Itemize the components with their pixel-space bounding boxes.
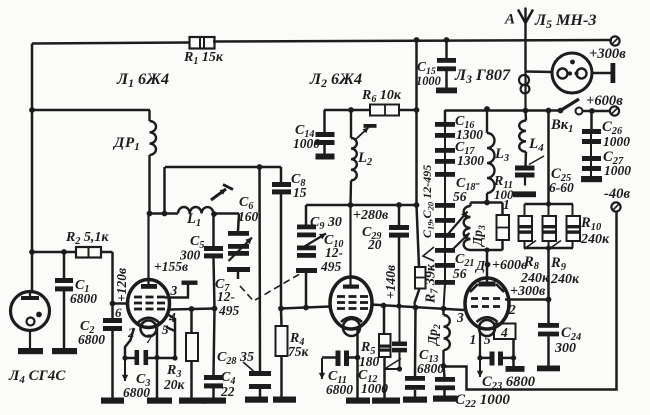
svg-text:1000: 1000 — [604, 163, 631, 178]
node R6 left — [348, 107, 354, 113]
wire +280в rail — [306, 204, 417, 207]
ground C15 — [436, 88, 457, 94]
svg-text:2: 2 — [508, 302, 516, 317]
wire suppressor top rail — [471, 201, 503, 204]
wire +600в rail — [445, 109, 561, 112]
svg-text:1000: 1000 — [416, 74, 441, 88]
cathode Л1 — [138, 318, 159, 323]
svg-text:R1 15к: R1 15к — [183, 50, 224, 67]
anode Л2 lead — [349, 205, 351, 285]
node C29 tap — [396, 202, 402, 208]
ground Л2 cathode — [346, 398, 370, 404]
resistor R9 — [548, 204, 550, 216]
capacitor C1 — [63, 252, 66, 278]
svg-text:7: 7 — [146, 331, 153, 346]
svg-text:1: 1 — [470, 332, 477, 347]
svg-text:А: А — [504, 12, 515, 28]
svg-text:+140в: +140в — [383, 265, 398, 299]
capacitor C14 — [323, 110, 326, 132]
svg-text:Л2 6Ж4: Л2 6Ж4 — [309, 70, 362, 90]
tube Л4 СГ4С — [11, 292, 50, 331]
wire R to +300в — [547, 248, 550, 300]
resistor R2 — [76, 247, 101, 258]
capacitor C11 — [349, 356, 358, 359]
node anode Л2 — [348, 202, 354, 208]
wire anode node up — [163, 167, 166, 214]
svg-text:С9 30: С9 30 — [310, 215, 342, 232]
svg-text:Л3 Г807: Л3 Г807 — [454, 66, 511, 86]
wire R7 column — [417, 205, 420, 267]
node R feed — [546, 201, 551, 206]
lamp terminal bar — [592, 72, 611, 75]
svg-text:Л5 МН-3: Л5 МН-3 — [534, 11, 596, 31]
cathode Л2 — [341, 317, 362, 322]
svg-text:R2 5,1к: R2 5,1к — [65, 230, 109, 247]
svg-text:6: 6 — [115, 305, 122, 320]
wire pin5 stub — [166, 327, 175, 331]
lamp Л5 — [526, 70, 553, 73]
capacitor C5 — [212, 214, 215, 247]
svg-text:240к: 240к — [580, 232, 610, 247]
tuning arrow C19 — [449, 212, 468, 234]
wire pin3 — [165, 296, 189, 299]
svg-text:6-60: 6-60 — [549, 180, 574, 195]
svg-text:1000: 1000 — [361, 381, 388, 396]
svg-text:75к: 75к — [288, 344, 310, 359]
anode Л1 — [141, 284, 157, 289]
wire R bottom rail — [525, 247, 574, 250]
node C3 left — [122, 355, 127, 360]
capacitor C21 — [435, 263, 455, 268]
wire x416 column — [415, 40, 418, 205]
anode Л3 — [479, 282, 496, 287]
node C13 tap — [413, 305, 419, 311]
resistor R1 — [190, 37, 215, 49]
node C1 tap — [61, 249, 67, 255]
wire grid Л2 — [281, 307, 330, 309]
svg-text:160: 160 — [238, 209, 259, 224]
svg-text:15: 15 — [293, 185, 307, 200]
resistor R8 — [524, 204, 526, 216]
wire pins15 Л3 — [478, 325, 480, 358]
svg-text:+280в: +280в — [353, 208, 389, 223]
ground C28 — [245, 397, 268, 403]
svg-text:12-: 12- — [217, 289, 236, 304]
capacitor C16 — [444, 110, 447, 122]
node cathode C3 — [154, 355, 159, 360]
capacitor C27 — [582, 156, 601, 161]
capacitor C12 — [399, 307, 401, 342]
capacitor C20 — [435, 233, 455, 238]
svg-text:1000: 1000 — [293, 136, 320, 151]
wire pin4 row — [170, 309, 215, 310]
tuning arrow C20 — [450, 233, 470, 252]
capacitor C8 — [280, 167, 283, 182]
pointer R9 — [549, 241, 561, 250]
wire left vertical — [31, 44, 34, 293]
wire Л2 output — [371, 305, 464, 311]
node C11 tap — [355, 355, 361, 361]
svg-text:495: 495 — [218, 303, 240, 318]
capacitor C2 — [111, 304, 114, 319]
svg-text:1000: 1000 — [603, 134, 630, 149]
ground C13 — [403, 397, 427, 403]
capacitor C9 — [305, 205, 308, 226]
tuning arrow L2 — [356, 128, 369, 140]
wire to ДР1 — [32, 109, 150, 112]
capacitor C18 — [435, 172, 455, 177]
node C24 tap — [546, 297, 552, 303]
inductor L3 — [486, 111, 488, 134]
ground C25 — [513, 191, 536, 197]
grid dashes Л2 — [337, 295, 345, 298]
svg-text:R6 10к: R6 10к — [361, 88, 402, 105]
tube Л3 — [465, 278, 509, 329]
node suppressor top — [484, 200, 490, 206]
capacitor C28 — [258, 167, 261, 371]
antenna — [518, 10, 533, 24]
node C26 tap — [589, 108, 595, 114]
ground C22 — [433, 396, 457, 402]
capacitor C23 — [480, 357, 490, 360]
ground C14 — [316, 154, 335, 160]
capacitor C15 — [445, 40, 448, 58]
svg-text:20: 20 — [367, 237, 382, 252]
svg-text:+300в: +300в — [510, 284, 546, 299]
ground C27 — [581, 176, 602, 182]
tuning arrow C10 — [302, 234, 326, 249]
svg-text:С22 1000: С22 1000 — [455, 392, 510, 410]
inductor L2 — [350, 110, 352, 138]
resistor R4 — [280, 309, 283, 327]
wire pin7 — [156, 327, 159, 357]
svg-text:20к: 20к — [163, 377, 186, 392]
wire C14 row — [324, 109, 351, 112]
wire grid Л1 — [113, 302, 128, 305]
capacitor C29 — [398, 205, 401, 225]
ground Л4 — [18, 348, 43, 354]
capacitor C22 — [444, 366, 445, 377]
resistor R7 — [415, 267, 426, 289]
bracket C19 C20 — [423, 247, 434, 261]
svg-text:Д: Д — [474, 258, 486, 273]
svg-text:Л4 СГ4С: Л4 СГ4С — [8, 368, 66, 386]
node anode line — [523, 108, 529, 114]
svg-text:6800: 6800 — [417, 361, 444, 376]
wire top bus — [32, 43, 190, 44]
ground cathode — [147, 398, 172, 404]
svg-text:4: 4 — [500, 325, 508, 340]
wire R top rail — [525, 203, 574, 206]
svg-text:300: 300 — [554, 341, 576, 356]
capacitor C25 — [515, 166, 535, 171]
terminal +600в — [610, 106, 619, 115]
svg-text:56: 56 — [453, 189, 467, 204]
choke ДР1 — [148, 110, 150, 121]
choke Др2 — [442, 309, 444, 316]
resistor R6 — [351, 109, 370, 112]
ground R4 — [273, 397, 296, 403]
capacitor C26 — [590, 111, 593, 129]
svg-text:1300: 1300 — [457, 153, 484, 168]
chassis arrow C11 — [321, 358, 323, 379]
wire bias bottom — [444, 212, 617, 390]
chassis arrow C23 — [479, 359, 481, 377]
resistor R3 — [190, 309, 193, 333]
wire suppressor bottom rail — [471, 249, 503, 252]
switch Вк1 — [558, 108, 564, 114]
node R5 tap — [381, 303, 387, 309]
svg-text:12-: 12- — [325, 245, 344, 260]
svg-text:3: 3 — [456, 310, 464, 325]
svg-text:180: 180 — [359, 354, 380, 369]
grid dashes Л3 — [471, 297, 478, 300]
node rail right — [414, 202, 420, 208]
svg-text:240к: 240к — [550, 272, 580, 287]
choke ДР3 — [469, 203, 471, 207]
ground C1 — [52, 348, 77, 354]
shield bar pin3 — [182, 281, 198, 285]
chassis arrow C3 — [124, 359, 126, 381]
capacitor C6 — [238, 214, 239, 232]
node C10 grid — [303, 305, 309, 311]
node Д testpoint — [485, 262, 491, 268]
resistor R5 — [383, 306, 386, 335]
wire anode Л3 — [486, 250, 489, 282]
grid dashes Л1 — [134, 296, 142, 299]
node R6 right — [414, 107, 420, 113]
node pin45 — [172, 355, 177, 360]
tuning arrow C7 — [229, 238, 253, 262]
svg-text:56: 56 — [453, 266, 467, 281]
svg-text:+600в: +600в — [586, 93, 623, 109]
node R bottom — [546, 245, 551, 250]
pin4 box — [494, 324, 516, 340]
tuning arrow L1 — [211, 189, 226, 200]
node Др2 bottom — [441, 363, 447, 369]
node anode-L1 — [147, 211, 153, 217]
node grid Л1 — [110, 301, 116, 307]
node C15 top — [444, 37, 450, 43]
node C8 row tap — [257, 164, 263, 170]
gang dashed link — [240, 272, 303, 301]
node L3 top — [484, 106, 490, 112]
capacitor C24 — [547, 300, 550, 324]
inductor L4 — [524, 111, 527, 121]
svg-text:-40в: -40в — [604, 186, 630, 202]
capacitor C19 — [435, 218, 455, 223]
wire R2 right — [101, 251, 113, 254]
ground C2 — [101, 398, 124, 404]
node R8 feed — [546, 108, 552, 114]
ground R5 — [372, 398, 400, 404]
svg-text:6800: 6800 — [123, 385, 150, 400]
svg-text:22: 22 — [220, 384, 235, 399]
svg-text:495: 495 — [320, 259, 342, 274]
svg-text:6800: 6800 — [326, 382, 353, 397]
tube Л1 — [128, 280, 170, 328]
capacitor C7 — [228, 251, 249, 256]
capacitor C17 — [435, 148, 455, 153]
ground R3 — [179, 398, 205, 404]
cathode lead Л2 — [356, 329, 359, 398]
terminal +300в — [610, 36, 619, 45]
anode cap Г807 — [524, 72, 526, 111]
svg-text:5: 5 — [162, 322, 169, 337]
svg-text:С28 35: С28 35 — [217, 350, 254, 367]
resistor R10 — [572, 204, 574, 216]
node junction left-ДР1 — [29, 107, 35, 113]
capacitor C4 — [214, 309, 215, 376]
ground C4 — [202, 398, 226, 404]
node R3 tap — [189, 306, 195, 312]
svg-text:Д: Д — [112, 135, 125, 151]
node Др2 tap — [441, 306, 447, 312]
svg-text:6800: 6800 — [78, 332, 105, 347]
wire cathode down — [156, 358, 159, 399]
wire R2 left — [32, 251, 77, 254]
capacitor C13 — [414, 308, 417, 377]
capacitor C10 — [297, 246, 316, 251]
wire pin2 down — [125, 328, 134, 358]
inductor L1 — [150, 212, 179, 215]
capacitor C3 — [125, 357, 135, 360]
svg-text:+155в: +155в — [154, 259, 188, 274]
svg-text:100: 100 — [494, 187, 514, 202]
svg-text:6800: 6800 — [70, 291, 97, 306]
ground pin4 — [506, 366, 525, 372]
resistor R11 — [501, 203, 504, 216]
cathode Л3 — [477, 317, 498, 322]
svg-text:С23 6800: С23 6800 — [482, 374, 536, 392]
pointer R8 — [524, 241, 536, 250]
wire R8 feed — [547, 111, 550, 205]
node C5/C4 tap — [212, 306, 218, 312]
svg-text:Л1 6Ж4: Л1 6Ж4 — [116, 70, 169, 90]
node top x416 — [414, 37, 420, 43]
terminal -40в — [611, 202, 620, 211]
svg-text:240к: 240к — [520, 271, 550, 286]
wire C8 row — [165, 166, 281, 169]
tube Л2 — [330, 277, 372, 329]
wire switch to terminal — [583, 110, 612, 113]
node C23 right — [511, 355, 516, 360]
wire pin2 Л3 — [505, 298, 549, 301]
svg-text:+300в: +300в — [589, 46, 626, 62]
wire pins45 down — [158, 314, 175, 358]
ground C24 — [537, 366, 560, 372]
node junction R2 row — [29, 249, 35, 255]
node grid Л2 left — [278, 306, 284, 312]
svg-text:3: 3 — [170, 283, 178, 298]
svg-text:5: 5 — [484, 332, 491, 347]
